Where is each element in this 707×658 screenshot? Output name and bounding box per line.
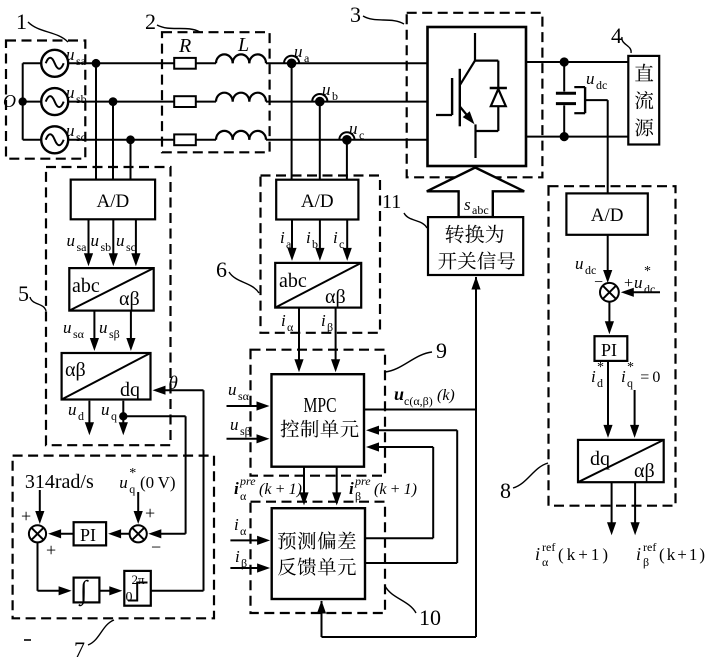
wire u_q to PLL	[123, 416, 185, 534]
label plus left-top	[21, 506, 31, 526]
summer circle dc	[600, 283, 619, 302]
wire: bus to source u_sb	[23, 101, 42, 103]
capacitor C (dc link)	[556, 62, 576, 137]
arrow summer to PI	[108, 529, 130, 538]
dashed box 2 (RL filter)	[162, 32, 270, 152]
DC source box (zhi liu yuan)	[628, 56, 659, 145]
arrow summer to PI dc	[605, 302, 614, 335]
label u_sa mid	[67, 231, 88, 254]
svg-text:pre: pre	[239, 474, 256, 488]
svg-text:u: u	[322, 80, 331, 99]
wire R to L phase b	[196, 101, 216, 103]
arrow theta into dq	[153, 386, 204, 395]
svg-text:i: i	[234, 479, 239, 498]
svg-text:2π: 2π	[132, 572, 146, 587]
arrow u_salpha into MPC	[227, 401, 270, 410]
svg-text:i: i	[280, 228, 285, 247]
arrow u_q into summer	[148, 529, 185, 538]
junction dot u_q	[119, 412, 127, 420]
svg-text:i: i	[535, 544, 540, 564]
arrow u_c into box 11	[471, 277, 480, 290]
svg-text:pre: pre	[354, 474, 371, 488]
abc-albe box (currents)	[275, 263, 361, 308]
svg-text:(k): (k)	[437, 387, 455, 404]
label u_sb mid	[91, 231, 112, 254]
label 1 callout	[16, 9, 68, 42]
IGBT emitter stub	[474, 124, 476, 158]
svg-text:abc: abc	[472, 203, 489, 217]
integrator box	[74, 575, 100, 607]
inductor L phase b	[216, 93, 266, 102]
svg-text:b: b	[312, 237, 318, 251]
label 314rad/s	[25, 471, 94, 493]
label u_b	[322, 80, 338, 103]
label i_alpha fb	[234, 515, 247, 538]
svg-text:i: i	[621, 367, 626, 386]
arrow i_beta to MPC	[331, 308, 340, 373]
arrow into integrator	[59, 586, 72, 595]
svg-text:abc: abc	[72, 275, 100, 297]
svg-text:u: u	[66, 45, 75, 64]
svg-text:c(α,β): c(α,β)	[404, 394, 433, 408]
wire: bus to source u_sa	[23, 62, 42, 64]
svg-text:2: 2	[145, 9, 156, 34]
label 3 callout	[350, 2, 404, 27]
svg-text:i: i	[306, 228, 311, 247]
arrow u_q output	[119, 412, 128, 435]
converter box	[428, 27, 527, 166]
voltage probe u_dc bracket	[574, 87, 585, 113]
A/D box (currents)	[276, 180, 358, 220]
arrow mpc fb input 2	[366, 442, 433, 451]
svg-text:u: u	[63, 318, 72, 337]
wire R to L phase c	[196, 139, 216, 141]
svg-text:i: i	[636, 544, 641, 564]
IGBT emitter arrow	[460, 107, 475, 125]
svg-text:sβ: sβ	[109, 327, 120, 341]
label 10 callout	[385, 586, 441, 630]
svg-text:i: i	[321, 311, 326, 330]
svg-text:sb: sb	[101, 240, 112, 254]
svg-text:PI: PI	[80, 525, 96, 545]
arrow i_beta into fb	[230, 563, 270, 572]
svg-text:β: β	[643, 555, 649, 569]
label s_abc	[464, 195, 489, 217]
arrow u_sc to abc	[131, 219, 140, 266]
svg-text:q: q	[111, 409, 117, 423]
label i_beta_ref	[636, 540, 705, 569]
block arrow s_abc	[427, 168, 524, 218]
label i_alpha_ref	[535, 540, 608, 569]
svg-text:α: α	[542, 555, 549, 569]
arrow i_d* to dq	[603, 361, 612, 438]
IGBT collector diagonal	[460, 61, 475, 86]
label 4 callout	[611, 23, 631, 53]
node O dot	[19, 97, 27, 105]
label i_beta_pre(k+1)	[349, 474, 417, 503]
label i_beta	[321, 311, 333, 334]
svg-text:8: 8	[500, 478, 511, 503]
label u_a	[294, 42, 310, 65]
arrow u_sa to abc	[84, 219, 93, 266]
svg-text:u: u	[68, 400, 77, 419]
arrow u_sbeta down	[126, 311, 135, 351]
junction dot u_sa tap	[92, 59, 101, 68]
arrow i_beta_pre output	[332, 467, 341, 506]
wire DC- rail	[526, 136, 628, 138]
svg-text:dc: dc	[596, 78, 607, 92]
wire u_sb tap down to A/D	[112, 102, 114, 180]
dashed box 7	[13, 456, 214, 619]
svg-text:A/D: A/D	[97, 191, 130, 212]
arrow udc_ref into summer	[621, 288, 660, 297]
IGBT gate bar	[451, 78, 453, 115]
wire fb out1 to MPC	[365, 447, 433, 538]
svg-text:u: u	[228, 380, 237, 399]
svg-text:c: c	[359, 128, 364, 142]
dashed box 3 (converter)	[407, 13, 543, 178]
wire: source bus vertical	[22, 63, 24, 140]
node u_a dot with arc	[284, 56, 299, 68]
svg-text:u: u	[230, 415, 239, 434]
PI box pll	[74, 522, 107, 545]
prediction error feedback box	[272, 508, 365, 599]
wire L to converter phase b	[266, 101, 428, 103]
wire summer down	[38, 542, 61, 590]
A/D box (dc)	[566, 193, 647, 234]
junction dot u_sb tap	[109, 97, 118, 106]
label u_salpha mpc	[228, 380, 250, 403]
svg-text:dq: dq	[120, 379, 140, 401]
label 5 callout	[18, 281, 46, 311]
svg-text:i: i	[349, 479, 354, 498]
svg-text:*: *	[597, 360, 604, 375]
svg-text:α: α	[287, 320, 294, 334]
svg-text:sa: sa	[77, 240, 88, 254]
MPC control unit box	[272, 374, 365, 467]
svg-text:A/D: A/D	[301, 191, 334, 212]
AC source u_sa	[41, 50, 68, 77]
arrow u_salpha down	[90, 311, 99, 351]
arrow PI to summer	[48, 529, 74, 538]
svg-text:10: 10	[419, 605, 441, 630]
arrow i_b	[315, 220, 324, 261]
svg-text:+: +	[21, 506, 31, 526]
wire u_b down to A/D	[319, 102, 321, 180]
arrow i_alpha into fb	[230, 536, 270, 545]
label u_sc mid	[116, 231, 136, 254]
svg-text:u: u	[634, 273, 643, 292]
svg-text:6: 6	[216, 257, 227, 282]
resistor R phase a	[174, 58, 196, 69]
svg-text:u: u	[349, 119, 358, 138]
label plus right	[145, 503, 155, 523]
arrow i_a	[287, 220, 296, 261]
svg-text:PI: PI	[601, 340, 617, 360]
AC source u_sc	[41, 126, 68, 153]
svg-text:a: a	[304, 51, 310, 65]
label L	[237, 34, 249, 56]
label 2 callout	[145, 9, 200, 34]
label i_a	[280, 228, 292, 251]
arrow u_d output	[85, 401, 94, 436]
label u_sb	[66, 83, 87, 106]
wire: bus to source u_sc	[23, 139, 42, 141]
svg-text:314rad/s: 314rad/s	[25, 471, 94, 493]
arrow u_q* into summer	[134, 492, 143, 524]
svg-text:= 0: = 0	[637, 369, 660, 386]
wire L to converter phase a	[266, 62, 428, 64]
svg-text:c: c	[339, 237, 344, 251]
junction dot u_sc tap	[126, 135, 135, 144]
diode D1	[490, 88, 507, 131]
resistor R phase c	[174, 134, 196, 145]
svg-text:sc: sc	[126, 240, 136, 254]
summer circle left	[29, 525, 46, 542]
svg-text:−: −	[151, 537, 161, 557]
svg-text:u: u	[119, 473, 128, 492]
arrow 314 into summer	[35, 490, 44, 524]
svg-text:5: 5	[18, 281, 29, 306]
svg-text:1: 1	[16, 9, 27, 34]
svg-text:sc: sc	[76, 130, 86, 144]
label i_q*=0	[621, 360, 660, 390]
IGBT channel bar	[459, 69, 461, 127]
label minus dc	[594, 274, 603, 291]
svg-text:sα: sα	[238, 389, 250, 403]
svg-text:u: u	[394, 384, 404, 404]
arrow i_beta_ref out	[631, 482, 640, 535]
svg-text:*: *	[644, 264, 651, 279]
label u_q*(0V)	[119, 466, 175, 496]
box 11: convert to switching signals	[428, 217, 523, 275]
svg-text:sb: sb	[76, 92, 87, 106]
svg-text:4: 4	[611, 23, 622, 48]
label O	[3, 91, 16, 111]
label u_sa	[66, 45, 87, 68]
albe-dq box	[62, 353, 151, 401]
svg-text:b: b	[332, 89, 338, 103]
label i_b	[306, 228, 318, 251]
label u_sbeta	[99, 318, 120, 341]
label plus left-bot	[46, 540, 56, 560]
label u_c(alpha,beta)(k)	[394, 384, 455, 408]
arrow i_alpha to MPC	[294, 308, 303, 373]
dashed box 5	[46, 167, 171, 445]
svg-text:i: i	[591, 367, 596, 386]
svg-text:sβ: sβ	[240, 424, 251, 438]
svg-text:0: 0	[126, 590, 133, 605]
stray dash mark	[24, 639, 31, 641]
wire u_c vertical	[475, 277, 477, 637]
node u_c dot with arc	[339, 132, 354, 144]
label i_c	[333, 228, 344, 251]
arrow integrator to wrap	[99, 586, 122, 595]
wire DC+ rail	[526, 61, 628, 63]
svg-text:u: u	[116, 231, 125, 250]
svg-text:u: u	[575, 254, 584, 273]
svg-text:11: 11	[382, 191, 401, 213]
svg-text:i: i	[234, 515, 239, 534]
arrow u_sbeta into MPC	[227, 434, 270, 443]
label u_c	[349, 119, 364, 142]
svg-text:α: α	[240, 524, 247, 538]
summer circle right	[130, 525, 147, 542]
wire u_q output	[122, 401, 124, 412]
label u_sc	[66, 121, 86, 144]
dq-albe box	[578, 440, 664, 482]
svg-text:*: *	[129, 466, 136, 481]
wire u_c output	[364, 409, 476, 411]
wire phase c: source to R	[68, 139, 174, 141]
label i_alpha_pre(k+1)	[234, 474, 302, 503]
svg-text:+: +	[46, 540, 56, 560]
svg-text:i: i	[281, 311, 286, 330]
arrow u_dc to summer	[603, 235, 612, 283]
svg-text:u: u	[101, 400, 110, 419]
wire phase b: source to R	[68, 101, 174, 103]
svg-text:dc: dc	[644, 282, 655, 296]
svg-text:sα: sα	[73, 327, 85, 341]
svg-text:s: s	[464, 195, 471, 214]
svg-text:L: L	[237, 34, 249, 56]
svg-text:β: β	[327, 320, 333, 334]
label u_d	[68, 400, 84, 423]
svg-text:abc: abc	[279, 270, 307, 292]
junction dot DC-	[560, 132, 569, 141]
dashed box 8	[549, 186, 676, 506]
diode branch bottom	[476, 130, 499, 132]
svg-text:a: a	[286, 237, 292, 251]
label 11 callout	[382, 191, 427, 228]
IGBT gate lead	[436, 114, 452, 116]
svg-text:MPC: MPC	[304, 393, 337, 417]
wire phase a: source to R	[68, 62, 174, 64]
svg-text:+: +	[145, 503, 155, 523]
svg-text:αβ: αβ	[65, 359, 86, 381]
arrow i_c	[343, 220, 352, 261]
svg-text:9: 9	[436, 338, 447, 363]
label 8 callout	[500, 463, 548, 503]
label 7 callout	[74, 620, 114, 658]
dashed box 1 (AC source group)	[6, 41, 85, 159]
svg-text:q: q	[129, 482, 135, 496]
wire u_a down to A/D	[291, 63, 293, 179]
svg-text:(k + 1): (k + 1)	[374, 481, 417, 498]
IGBT collector stub	[474, 33, 476, 61]
svg-text:αβ: αβ	[634, 460, 655, 482]
arrow i_q* to dq	[630, 390, 639, 438]
svg-text:7: 7	[74, 637, 85, 658]
svg-text:ref: ref	[643, 540, 656, 554]
label R	[178, 35, 191, 57]
wire theta out	[151, 390, 204, 591]
svg-text:ref: ref	[542, 540, 555, 554]
svg-text:u: u	[91, 231, 100, 250]
arrow mpc fb input 1	[366, 426, 457, 435]
label u_dc	[586, 69, 607, 92]
svg-text:(k + 1): (k + 1)	[259, 481, 302, 498]
svg-text:αβ: αβ	[325, 286, 346, 308]
svg-text:3: 3	[350, 2, 361, 27]
svg-text:*: *	[627, 360, 634, 375]
arrow i_alpha_pre output	[299, 467, 308, 506]
label u_dc 2	[575, 254, 596, 277]
inductor L phase a	[216, 54, 266, 63]
PI box dc	[595, 336, 628, 361]
diode branch top	[475, 61, 498, 88]
wire L to converter phase c	[266, 139, 428, 141]
svg-text:u: u	[294, 42, 303, 61]
wire u_dc sense to A/D	[585, 100, 608, 193]
label u_sbeta mpc	[230, 415, 251, 438]
inductor L phase c	[216, 131, 266, 140]
arrow i_alpha_ref out	[607, 482, 616, 535]
svg-text:q: q	[627, 376, 633, 390]
svg-text:∫: ∫	[78, 575, 89, 607]
svg-text:u: u	[586, 69, 595, 88]
wire u_sc tap down to A/D	[130, 140, 132, 180]
svg-text:O: O	[3, 91, 16, 111]
svg-text:d: d	[78, 409, 84, 423]
svg-text:R: R	[178, 35, 191, 57]
svg-text:sa: sa	[76, 54, 87, 68]
svg-text:i: i	[333, 228, 338, 247]
label u_q	[101, 400, 117, 423]
label theta	[169, 373, 178, 394]
svg-text:d: d	[597, 376, 603, 390]
label i_d*	[591, 360, 604, 390]
svg-text:A/D: A/D	[591, 205, 624, 226]
dashed box 6	[261, 176, 381, 333]
resistor R phase b	[174, 96, 196, 107]
label 9 callout	[385, 338, 447, 372]
svg-text:(0 V): (0 V)	[140, 473, 176, 492]
abc-albe box (voltages)	[69, 268, 153, 311]
wire R to L phase a	[196, 62, 216, 64]
dashed box 10	[251, 502, 386, 613]
wire u_c feedback bottom	[322, 601, 477, 637]
label u_salpha	[63, 318, 85, 341]
wire fb out2 to MPC	[365, 430, 457, 563]
A/D box (voltages)	[71, 180, 155, 220]
svg-text:α: α	[240, 489, 247, 503]
AC source u_sb	[41, 88, 68, 115]
label minus right	[151, 537, 161, 557]
label 6 callout	[216, 257, 259, 293]
svg-text:u: u	[99, 318, 108, 337]
label +u_dc*	[624, 264, 655, 296]
wire u_sa tap down to A/D	[95, 63, 97, 179]
label i_beta fb	[235, 547, 247, 570]
svg-text:dq: dq	[590, 448, 610, 470]
node u_b dot with arc	[312, 94, 327, 106]
label i_alpha	[281, 311, 294, 334]
svg-text:u: u	[66, 121, 75, 140]
junction dot DC+	[560, 57, 569, 66]
svg-text:αβ: αβ	[119, 288, 140, 310]
svg-text:i: i	[235, 547, 240, 566]
svg-text:u: u	[66, 83, 75, 102]
svg-text:u: u	[67, 231, 76, 250]
wire u_c down to A/D	[346, 140, 348, 180]
arrow u_sb to abc	[109, 219, 118, 266]
arrow u_c into fb box	[317, 601, 326, 614]
wrap 0-2pi box	[124, 571, 151, 606]
dashed box 9	[251, 350, 386, 476]
